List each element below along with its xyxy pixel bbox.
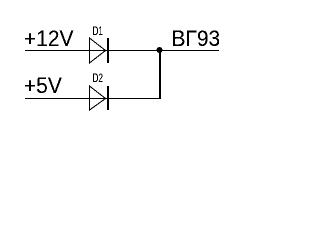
diode D1 cathode bar: [107, 38, 109, 63]
diode D2 cathode bar: [107, 86, 109, 110]
svg-text:+5V: +5V: [24, 74, 63, 99]
svg-text:D1: D1: [93, 26, 104, 38]
wire +5V rail (bottom horizontal): [25, 98, 161, 100]
svg-text:D2: D2: [93, 73, 104, 85]
wire +12V rail (top horizontal): [25, 50, 219, 52]
svg-text:+12V: +12V: [24, 27, 74, 52]
diode D1 anode triangle: [90, 38, 106, 63]
svg-text:ВГ93: ВГ93: [172, 27, 221, 52]
diode D2 anode triangle: [90, 86, 106, 110]
wire vertical riser from D2 to node: [159, 50, 161, 99]
node junction dot: [157, 47, 163, 53]
